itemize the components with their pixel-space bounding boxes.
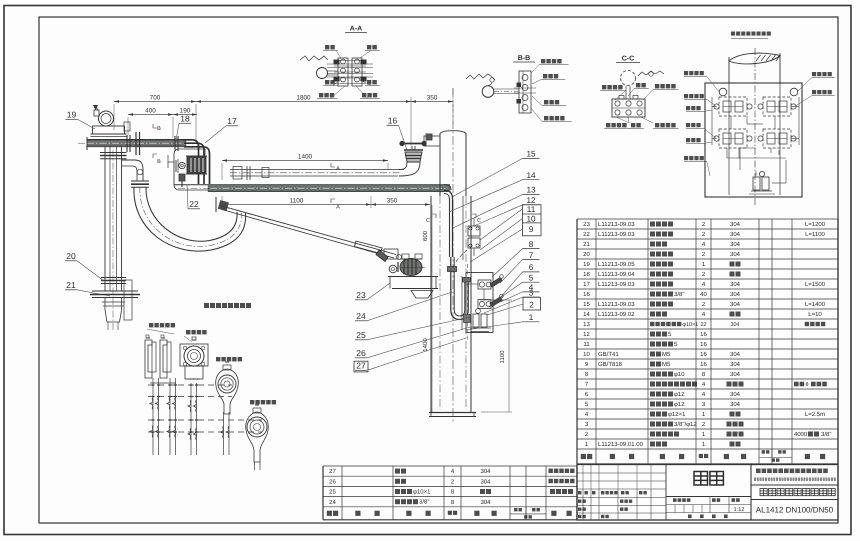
label pipe heater bbox=[186, 330, 207, 334]
internal diagram leader labels left bbox=[684, 71, 704, 75]
svg-text:L=10: L=10 bbox=[808, 311, 822, 318]
svg-text:L11213-09.03: L11213-09.03 bbox=[598, 231, 635, 238]
valve group top-right bbox=[763, 97, 791, 116]
riser column upper section bbox=[439, 133, 441, 196]
svg-text:12: 12 bbox=[526, 196, 536, 205]
svg-text:C: C bbox=[426, 218, 430, 224]
svg-text:1100: 1100 bbox=[499, 350, 506, 364]
filter regulator in bank bbox=[476, 309, 481, 314]
outer arm air motor (pear) bbox=[216, 369, 239, 414]
svg-text:19: 19 bbox=[67, 110, 77, 120]
svg-text:L11213-09.03: L11213-09.03 bbox=[598, 221, 635, 228]
svg-text:1: 1 bbox=[529, 313, 534, 322]
svg-text:A: A bbox=[336, 166, 340, 172]
valve item 16 on top bbox=[402, 143, 424, 145]
svg-text:26: 26 bbox=[356, 348, 366, 358]
svg-text:15: 15 bbox=[583, 301, 590, 308]
svg-text:B-B: B-B bbox=[518, 55, 530, 62]
pipes along column right bbox=[462, 196, 464, 260]
svg-text:304: 304 bbox=[480, 499, 491, 506]
svg-text:15: 15 bbox=[526, 150, 536, 159]
column top cap arc bbox=[440, 131, 466, 134]
cable gland left bbox=[719, 88, 727, 96]
svg-text:24: 24 bbox=[329, 499, 336, 506]
svg-text:A-A: A-A bbox=[350, 26, 362, 33]
svg-text:27: 27 bbox=[329, 468, 336, 475]
svg-text:L11213-09.03: L11213-09.03 bbox=[598, 281, 635, 288]
tie rod diagonal with turnbuckle bbox=[222, 206, 396, 255]
svg-text:16: 16 bbox=[700, 341, 707, 348]
control box item 22 frame bbox=[174, 154, 213, 190]
svg-text:9: 9 bbox=[529, 225, 534, 234]
svg-text:4000: 4000 bbox=[794, 431, 808, 438]
svg-text:17: 17 bbox=[583, 281, 590, 288]
base flange of standpost bbox=[92, 290, 138, 292]
svg-text:16: 16 bbox=[700, 331, 707, 338]
A-A hook sketch bbox=[300, 56, 328, 61]
svg-text:L11213-09.01.00: L11213-09.01.00 bbox=[598, 441, 644, 448]
svg-text:27: 27 bbox=[356, 361, 366, 371]
svg-text:8: 8 bbox=[529, 240, 534, 249]
BOM parts list table bbox=[577, 218, 838, 220]
flange pair below arm bbox=[100, 152, 127, 154]
svg-text:3/8": 3/8" bbox=[674, 291, 684, 298]
svg-text:A: A bbox=[336, 205, 340, 211]
svg-text:18: 18 bbox=[180, 114, 190, 124]
dimension 190 bbox=[173, 114, 197, 116]
inner arm air motor (pear) bbox=[246, 412, 269, 462]
svg-text:23: 23 bbox=[583, 221, 590, 228]
svg-text:25: 25 bbox=[356, 330, 366, 340]
svg-text:304: 304 bbox=[730, 241, 741, 248]
svg-text:3/8"/φ12: 3/8"/φ12 bbox=[674, 421, 697, 428]
pipe top break lens bbox=[729, 53, 780, 64]
svg-text:400: 400 bbox=[145, 108, 156, 115]
svg-text:350: 350 bbox=[387, 198, 398, 205]
svg-text:B: B bbox=[157, 126, 161, 132]
svg-text:L11213-09.03: L11213-09.03 bbox=[598, 301, 635, 308]
svg-text:B: B bbox=[157, 159, 161, 165]
valve item 19 actuator bbox=[99, 111, 114, 126]
flanged valve with ring bbox=[180, 344, 208, 366]
svg-text:8: 8 bbox=[806, 382, 809, 388]
svg-text:11: 11 bbox=[583, 341, 590, 348]
svg-text:16: 16 bbox=[388, 116, 398, 126]
vertical dim 1400 bbox=[431, 280, 433, 412]
svg-text:φ10×1: φ10×1 bbox=[682, 322, 698, 328]
valve group mid-right bbox=[763, 129, 791, 148]
svg-text:L=1100: L=1100 bbox=[805, 231, 825, 238]
svg-text:17: 17 bbox=[227, 116, 237, 126]
C-C stem and dashed ring bbox=[625, 86, 627, 99]
svg-text:304: 304 bbox=[730, 231, 741, 238]
clevis bracket at rod start bbox=[218, 200, 229, 211]
air service unit (triplet) inside box bbox=[759, 171, 764, 176]
svg-text:18: 18 bbox=[583, 271, 590, 278]
B-B ring and link bbox=[482, 86, 494, 98]
svg-text:C-C: C-C bbox=[622, 56, 634, 63]
svg-text:21: 21 bbox=[583, 241, 590, 248]
svg-text:6: 6 bbox=[529, 263, 534, 272]
svg-text:10: 10 bbox=[583, 351, 590, 358]
svg-text:7: 7 bbox=[529, 251, 534, 260]
svg-text:3: 3 bbox=[529, 288, 534, 297]
callout 2 boxed bbox=[523, 297, 541, 310]
box centerline bbox=[754, 48, 756, 205]
control box outline bbox=[705, 83, 802, 197]
riser column lower casing bbox=[430, 196, 432, 412]
svg-text:40: 40 bbox=[700, 291, 707, 298]
svg-text:2: 2 bbox=[529, 301, 534, 310]
lever valve top bbox=[478, 280, 491, 289]
pipe line through box left bbox=[728, 83, 730, 195]
drooping hose loop bbox=[134, 187, 246, 251]
internal pipes below valve groups bbox=[726, 148, 728, 158]
svg-text:304: 304 bbox=[730, 301, 741, 308]
bracket trapezoid under plate bbox=[411, 291, 433, 299]
drop pipe U-bend into bank bbox=[451, 257, 468, 320]
grid ticks bbox=[152, 384, 155, 386]
svg-text:L=2.5m: L=2.5m bbox=[805, 411, 825, 418]
svg-text:M5: M5 bbox=[662, 351, 671, 358]
svg-text:304: 304 bbox=[730, 361, 741, 368]
svg-text:304: 304 bbox=[730, 391, 741, 398]
svg-text:22: 22 bbox=[583, 231, 590, 238]
svg-text:350: 350 bbox=[427, 95, 438, 102]
svg-text:304: 304 bbox=[730, 351, 741, 358]
svg-text:L11213-09.04: L11213-09.04 bbox=[598, 271, 635, 278]
svg-text:3/8": 3/8" bbox=[419, 499, 429, 506]
dimension 700 bbox=[114, 101, 196, 103]
svg-text:10: 10 bbox=[526, 214, 536, 223]
column base plate bbox=[429, 412, 476, 414]
lever valve bottom bbox=[478, 300, 491, 309]
svg-text:φ12: φ12 bbox=[674, 391, 685, 398]
dimension 1100 bbox=[222, 204, 371, 206]
svg-text:16: 16 bbox=[583, 291, 590, 298]
svg-text:GB/T41: GB/T41 bbox=[598, 351, 619, 358]
svg-text:20: 20 bbox=[66, 251, 76, 261]
svg-text:φ10: φ10 bbox=[674, 371, 685, 378]
drawing name bbox=[760, 489, 835, 496]
svg-text:13: 13 bbox=[526, 186, 536, 195]
pipe elbows from inner arm to drop bbox=[183, 140, 199, 184]
callout stack 11 10 9 boxed bbox=[522, 205, 541, 236]
inner arm pipe bundle bbox=[87, 140, 186, 146]
svg-text:304: 304 bbox=[480, 468, 491, 475]
gauge block on column right bbox=[468, 226, 480, 236]
dark drop pipe outer bbox=[444, 191, 453, 258]
svg-text:11: 11 bbox=[527, 205, 536, 214]
title text ZongTu bbox=[694, 472, 723, 486]
svg-text:304: 304 bbox=[730, 322, 739, 328]
dimension 350 mid bbox=[371, 204, 430, 206]
A-A labels bbox=[325, 45, 335, 49]
air motor assembly on column bbox=[400, 259, 422, 276]
vertical dim 600 bbox=[431, 205, 433, 280]
svg-text:304: 304 bbox=[730, 221, 741, 228]
flange at loop start bbox=[131, 180, 149, 182]
svg-text:13: 13 bbox=[583, 321, 590, 328]
dimension 1400 bbox=[222, 160, 388, 162]
dimension 1800 bbox=[196, 101, 411, 103]
svg-text:L=1500: L=1500 bbox=[805, 281, 826, 288]
svg-text:16: 16 bbox=[700, 351, 707, 358]
bracket assembly bbox=[145, 340, 152, 378]
svg-text:1:12: 1:12 bbox=[734, 507, 745, 513]
svg-text:25: 25 bbox=[329, 489, 336, 496]
svg-text:5: 5 bbox=[529, 273, 534, 282]
svg-text:700: 700 bbox=[150, 95, 161, 102]
svg-text:304: 304 bbox=[730, 291, 741, 298]
bracket valve16 to column bbox=[424, 136, 440, 146]
svg-text:AL1412 DN100/DN50: AL1412 DN100/DN50 bbox=[756, 506, 834, 515]
label outer arm motor bbox=[216, 357, 242, 361]
vertical dim 1100 bbox=[508, 300, 510, 412]
svg-text:22: 22 bbox=[189, 199, 199, 209]
svg-text:20: 20 bbox=[583, 251, 590, 258]
standpost vertical pipe bbox=[104, 146, 106, 291]
svg-text:φ10×1: φ10×1 bbox=[413, 489, 431, 496]
svg-text:23: 23 bbox=[356, 290, 366, 300]
cable gland right bbox=[790, 88, 798, 96]
svg-text:304: 304 bbox=[730, 401, 741, 408]
dimension 350 top bbox=[411, 101, 453, 103]
B-B labels bbox=[541, 59, 562, 63]
valve bank B frame bbox=[466, 273, 493, 333]
svg-text:21: 21 bbox=[66, 280, 76, 290]
svg-text:19: 19 bbox=[583, 261, 590, 268]
svg-text:304: 304 bbox=[730, 371, 741, 378]
svg-text:L11213-09.05: L11213-09.05 bbox=[598, 261, 635, 268]
svg-text:L=1400: L=1400 bbox=[805, 301, 826, 308]
label bracket bbox=[149, 323, 175, 327]
svg-text:φ12×1: φ12×1 bbox=[668, 411, 686, 418]
svg-text:3/8": 3/8" bbox=[821, 431, 831, 438]
swivel elbow to right bbox=[122, 160, 144, 181]
flange pair on arm bbox=[126, 135, 128, 152]
svg-text:L11213-09.02: L11213-09.02 bbox=[598, 311, 635, 318]
svg-text:16: 16 bbox=[700, 361, 707, 368]
svg-text:304: 304 bbox=[480, 478, 491, 485]
svg-text:φ12: φ12 bbox=[674, 401, 685, 408]
C-C labels bbox=[602, 85, 623, 89]
A-A ring bbox=[317, 68, 328, 79]
label inner arm motor bbox=[250, 400, 276, 404]
svg-text:1100: 1100 bbox=[290, 198, 304, 205]
svg-text:26: 26 bbox=[329, 478, 336, 485]
svg-text:1400: 1400 bbox=[298, 154, 313, 161]
company name bbox=[756, 469, 828, 474]
svg-text:GB/T818: GB/T818 bbox=[598, 361, 623, 368]
title block bbox=[577, 465, 838, 521]
dimension 400 bbox=[128, 114, 173, 116]
svg-text:600: 600 bbox=[422, 230, 429, 241]
svg-text:14: 14 bbox=[583, 311, 590, 318]
coupling on standpost bbox=[101, 277, 126, 279]
svg-text:12: 12 bbox=[583, 331, 590, 338]
motor in box 22 bbox=[187, 157, 206, 173]
valve group top-left bbox=[719, 97, 747, 116]
svg-text:L=1200: L=1200 bbox=[805, 221, 826, 228]
B-B clamp bar bbox=[519, 71, 531, 113]
wiring grid dashed lines bbox=[148, 384, 232, 386]
title neibu jiexiantu bbox=[731, 32, 771, 36]
svg-text:M5: M5 bbox=[662, 361, 671, 368]
drain funnel below base bbox=[104, 298, 106, 311]
thin pilot pipe above outer arm bbox=[230, 169, 404, 171]
svg-text:22: 22 bbox=[700, 322, 706, 328]
dark drop pipe inner bbox=[444, 194, 450, 258]
riser pipe left bbox=[728, 57, 730, 83]
svg-text:304: 304 bbox=[730, 251, 741, 258]
outer arm pipe bundle bbox=[208, 186, 450, 192]
valve group mid-left bbox=[719, 129, 747, 148]
svg-text:24: 24 bbox=[356, 311, 366, 321]
wiring vertical drops with coils bbox=[152, 378, 154, 455]
secondary parts table items 24-27 bbox=[323, 465, 577, 467]
svg-text:1800: 1800 bbox=[296, 95, 311, 102]
internal diagram leader labels right bbox=[812, 72, 832, 76]
C-C clamp block bbox=[612, 99, 645, 117]
svg-text:14: 14 bbox=[526, 171, 536, 180]
external wiring diagram title bbox=[204, 303, 251, 308]
svg-text:304: 304 bbox=[730, 281, 741, 288]
